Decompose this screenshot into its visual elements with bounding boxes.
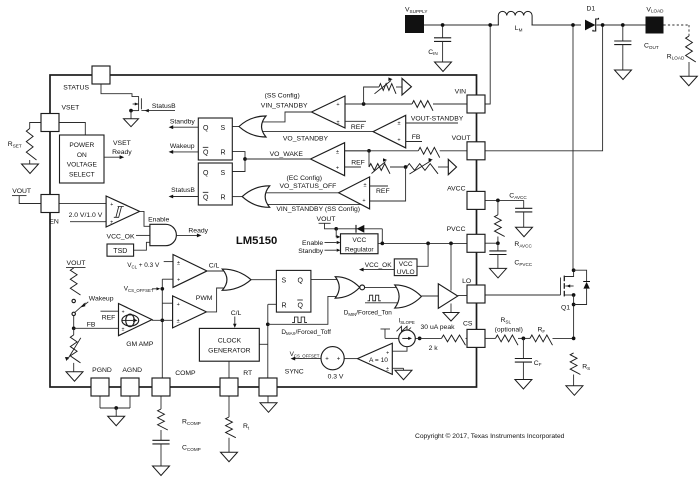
svg-text:PWM: PWM — [196, 295, 213, 302]
svg-text:VIN_STANDBY (SS Config): VIN_STANDBY (SS Config) — [276, 206, 360, 213]
svg-text:+: + — [177, 302, 180, 308]
svg-text:VSET: VSET — [62, 104, 80, 111]
svg-text:±: ± — [336, 150, 339, 156]
svg-text:R: R — [221, 150, 226, 157]
svg-text:0.3 V: 0.3 V — [328, 373, 344, 380]
svg-text:PVCC: PVCC — [447, 226, 466, 233]
svg-text:±: ± — [177, 318, 180, 324]
svg-text:(SS Config): (SS Config) — [265, 93, 300, 100]
svg-text:S: S — [221, 170, 226, 177]
svg-text:GENERATOR: GENERATOR — [208, 347, 251, 354]
svg-text:VOUT: VOUT — [12, 188, 31, 195]
svg-text:AVCC: AVCC — [447, 186, 465, 193]
svg-text:VIN_STANDBY: VIN_STANDBY — [261, 103, 308, 110]
svg-text:PGND: PGND — [92, 367, 112, 374]
svg-text:R: R — [221, 195, 226, 202]
svg-text:Wakeup: Wakeup — [170, 143, 195, 150]
svg-text:±: ± — [336, 120, 339, 126]
svg-text:Enable: Enable — [302, 240, 323, 247]
svg-text:GM AMP: GM AMP — [126, 341, 154, 348]
svg-text:FB: FB — [412, 134, 421, 141]
svg-text:+: + — [110, 202, 113, 208]
svg-text:Ready: Ready — [188, 227, 208, 234]
svg-text:CS: CS — [463, 321, 473, 328]
svg-text:TSD: TSD — [113, 248, 127, 255]
svg-text:+: + — [336, 102, 339, 108]
svg-text:Standby: Standby — [298, 248, 324, 255]
svg-text:REF: REF — [102, 315, 116, 322]
svg-text:±: ± — [177, 260, 180, 266]
svg-text:VCC_OK: VCC_OK — [365, 262, 392, 269]
svg-text:COMP: COMP — [175, 370, 196, 377]
svg-text:Q: Q — [203, 125, 209, 132]
svg-text:Q: Q — [203, 170, 209, 177]
svg-text:(EC Config): (EC Config) — [287, 175, 323, 182]
svg-text:AGND: AGND — [122, 367, 142, 374]
svg-text:±: ± — [110, 220, 113, 226]
svg-text:SELECT: SELECT — [69, 171, 95, 178]
svg-text:ON: ON — [77, 152, 87, 159]
svg-text:VCC_OK: VCC_OK — [107, 233, 135, 240]
svg-text:+: + — [325, 357, 329, 363]
svg-text:VSET: VSET — [113, 140, 131, 147]
svg-text:REF: REF — [351, 159, 365, 166]
svg-text:StatusB: StatusB — [171, 187, 195, 194]
svg-text:Q: Q — [203, 150, 209, 157]
svg-text:FB: FB — [87, 321, 96, 328]
svg-text:+: + — [177, 277, 180, 283]
svg-text:Wakeup: Wakeup — [89, 296, 114, 303]
svg-text:LO: LO — [462, 278, 471, 285]
svg-text:VO_WAKE: VO_WAKE — [270, 151, 304, 158]
svg-text:2 k: 2 k — [429, 345, 439, 352]
svg-text:REF: REF — [351, 124, 365, 131]
svg-text:CLOCK: CLOCK — [218, 338, 242, 345]
svg-text:±: ± — [397, 121, 400, 127]
svg-text:Q: Q — [298, 278, 304, 285]
svg-text:EN: EN — [49, 219, 59, 226]
svg-text:+: + — [397, 138, 400, 144]
svg-text:Q1: Q1 — [561, 304, 570, 311]
svg-text:UVLO: UVLO — [397, 269, 415, 276]
svg-text:R: R — [282, 302, 287, 309]
svg-text:+: + — [386, 351, 389, 357]
svg-text:30 uA peak: 30 uA peak — [421, 324, 456, 331]
svg-text:VO_STANDBY: VO_STANDBY — [283, 136, 329, 143]
svg-text:2.0 V/1.0 V: 2.0 V/1.0 V — [69, 212, 103, 219]
svg-text:VCC: VCC — [352, 237, 366, 244]
svg-text:+: + — [336, 165, 339, 171]
svg-text:±: ± — [386, 367, 389, 373]
svg-text:LM5150: LM5150 — [236, 235, 277, 247]
svg-text:Standby: Standby — [170, 118, 196, 125]
svg-text:C/L: C/L — [209, 263, 220, 270]
svg-text:+: + — [362, 198, 365, 204]
svg-text:STATUS: STATUS — [63, 85, 89, 92]
svg-text:VOUT: VOUT — [67, 260, 86, 267]
svg-text:VOLTAGE: VOLTAGE — [67, 162, 98, 169]
svg-text:VIN: VIN — [455, 89, 466, 96]
svg-text:±: ± — [363, 182, 366, 188]
svg-text:Q: Q — [298, 302, 304, 309]
svg-text:Enable: Enable — [148, 216, 169, 223]
svg-text:REF: REF — [376, 188, 390, 195]
svg-text:RT: RT — [243, 370, 252, 377]
svg-text:(optional): (optional) — [495, 326, 523, 333]
svg-text:VO_STATUS_OFF: VO_STATUS_OFF — [280, 183, 337, 190]
svg-text:POWER: POWER — [69, 142, 94, 149]
svg-text:Regulator: Regulator — [345, 246, 374, 253]
svg-text:C/L: C/L — [231, 310, 242, 317]
svg-text:VOUT-STANDBY: VOUT-STANDBY — [411, 115, 464, 122]
svg-text:Copyright © 2017, Texas Instru: Copyright © 2017, Texas Instruments Inco… — [415, 432, 565, 440]
svg-text:VCC: VCC — [399, 261, 413, 268]
svg-text:S: S — [221, 125, 226, 132]
svg-text:S: S — [282, 278, 287, 285]
svg-text:±: ± — [122, 327, 125, 333]
svg-text:+: + — [122, 310, 125, 316]
svg-text:A = 10: A = 10 — [369, 357, 388, 364]
svg-text:VOUT: VOUT — [317, 216, 336, 223]
svg-text:D1: D1 — [587, 6, 596, 13]
svg-text:+: + — [337, 357, 341, 363]
svg-text:Q: Q — [203, 195, 209, 202]
svg-text:VOUT: VOUT — [452, 135, 471, 142]
svg-text:StatusB: StatusB — [152, 103, 176, 110]
svg-text:Ready: Ready — [112, 149, 132, 156]
svg-text:SYNC: SYNC — [285, 368, 304, 375]
